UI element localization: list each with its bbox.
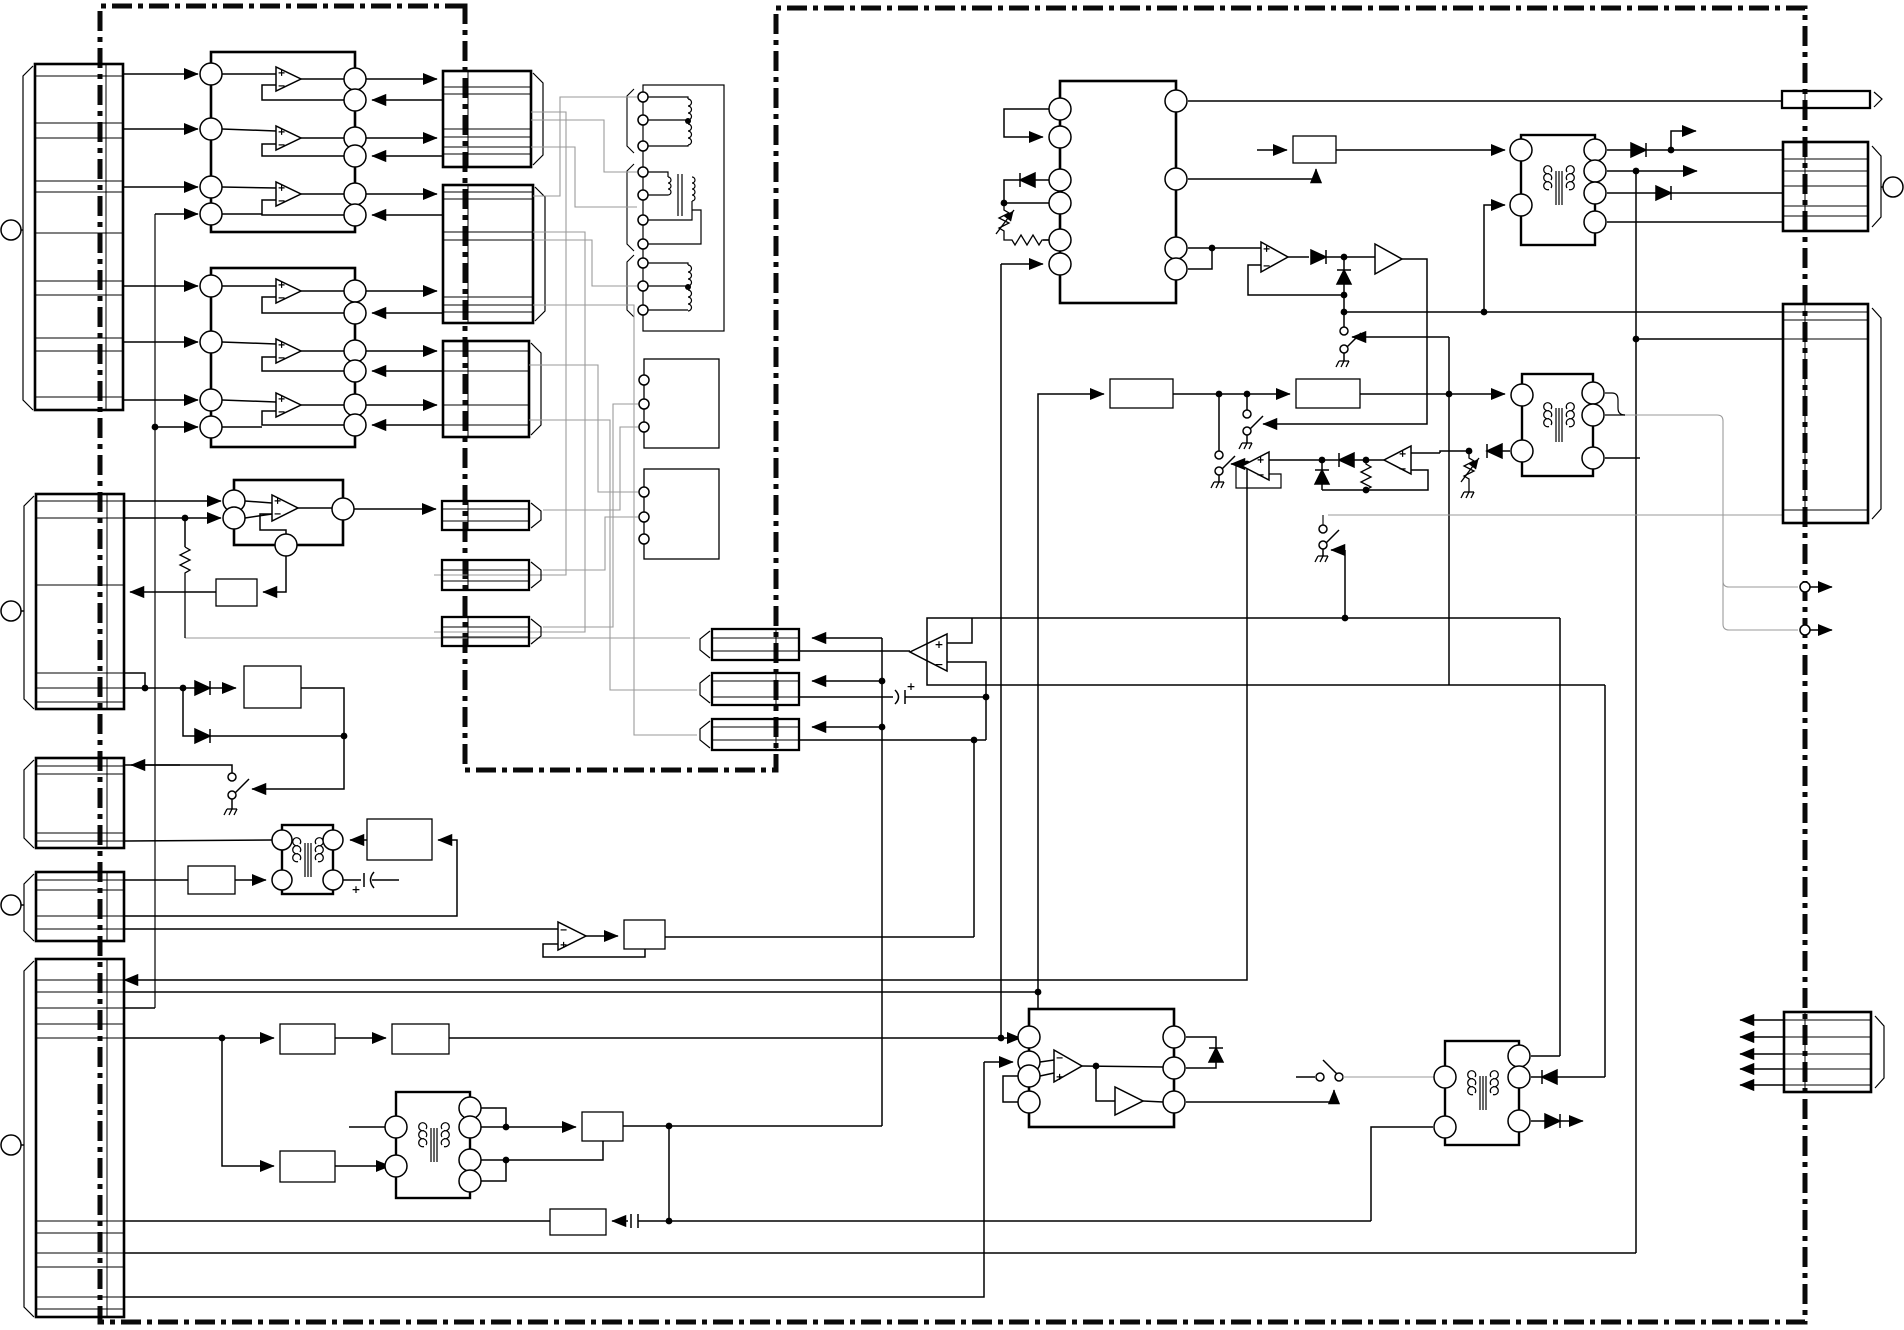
node junction <box>180 685 187 692</box>
connector CN13 <box>700 673 799 705</box>
connector CN10 <box>442 560 541 590</box>
block K13 <box>550 1209 606 1235</box>
wire IC2 outputs <box>366 290 437 292</box>
node junction <box>666 1218 673 1225</box>
connector CN2 (left, second) <box>24 494 124 709</box>
node junction <box>1319 457 1326 464</box>
node junction <box>998 1035 1005 1042</box>
wire K3 to T1 <box>350 839 367 841</box>
switch SW5 <box>1315 515 1348 621</box>
node junction <box>1244 391 1251 398</box>
op-amp U1C <box>222 182 344 215</box>
wire <box>1605 414 1625 416</box>
connector CN18 (bottom right) <box>1784 1012 1884 1092</box>
op-amp U4 <box>910 618 986 740</box>
op-amp U9 <box>1236 452 1322 488</box>
node junction <box>1363 487 1370 494</box>
wire CN1 to IC2 inputs <box>123 285 198 287</box>
node junction <box>503 1157 510 1164</box>
connector CN3 <box>24 758 124 848</box>
wire <box>481 1126 506 1128</box>
node junction <box>1341 254 1348 261</box>
op-amp U1B <box>222 126 344 156</box>
block K5 <box>624 920 665 949</box>
variable resistor VR2 <box>1461 451 1479 498</box>
wire to K12 <box>506 1126 576 1128</box>
transformer T2 <box>1510 135 1606 245</box>
connector CN4 <box>24 872 124 941</box>
wire return <box>372 424 443 426</box>
wire bus to CN17 <box>1636 338 1783 340</box>
wire net B drop <box>1604 685 1606 1077</box>
wire vertical <box>668 1126 670 1221</box>
wire IC1 outputs to CN6 <box>366 78 437 80</box>
connector CN17 (right mid) <box>1783 304 1881 523</box>
diode D13 (vertical) <box>1186 1037 1223 1068</box>
wire CN13 via C2 <box>799 696 893 698</box>
node junction <box>1035 989 1042 996</box>
wire to CN8 <box>366 350 437 352</box>
bracket <box>627 164 634 251</box>
node junction <box>983 694 990 701</box>
connector CN16 (right) <box>1783 142 1881 231</box>
connector CN6 <box>443 71 543 167</box>
wire up to T4 <box>1371 1127 1433 1221</box>
diode D3 <box>1004 173 1049 203</box>
wire CN4 to K4 <box>124 879 188 881</box>
block K2 <box>244 666 301 708</box>
connector CN14 <box>700 719 799 750</box>
node junction <box>1341 309 1348 316</box>
wire vertical to bottom rail <box>124 464 1247 980</box>
diode D1 <box>195 681 236 695</box>
wire vertical <box>1448 337 1450 685</box>
wire to D2 <box>183 688 195 736</box>
resistor R3 (vertical) <box>1361 460 1371 490</box>
wire pin3-4 loop <box>1003 1076 1018 1102</box>
block K8 <box>1296 379 1360 408</box>
transformer T5 <box>385 1092 481 1198</box>
screw terminal E5 <box>1881 177 1903 197</box>
op-amp U11A <box>1040 1050 1163 1101</box>
wire <box>155 426 198 428</box>
op-amp U2C <box>222 393 344 427</box>
block K3 <box>367 819 432 860</box>
coil L1a <box>648 97 692 146</box>
wire <box>124 517 221 519</box>
node junction <box>503 1124 510 1131</box>
capacitor C2 <box>895 683 986 704</box>
wire net A horizontal <box>927 618 1605 685</box>
wire feed K3 <box>124 840 457 916</box>
op-amp U1A <box>222 67 344 100</box>
diode D10 <box>1487 444 1510 458</box>
wire stub <box>349 1126 385 1128</box>
gray routing wires <box>185 97 697 735</box>
wire T4 to net A <box>1531 1055 1560 1057</box>
wire to CN7 <box>366 193 437 195</box>
block K7 <box>1110 379 1173 408</box>
wire drop to K11 <box>222 1038 274 1166</box>
resistor R2 <box>1004 235 1049 245</box>
wire K8 to T3 <box>1360 393 1505 395</box>
variable resistor VR1 <box>996 203 1014 236</box>
wire <box>123 186 198 188</box>
wire branch arrow <box>1671 131 1696 150</box>
node junction <box>182 515 189 522</box>
transformer T6 (middle pair) <box>648 172 701 244</box>
op-amp array IC2 <box>200 268 366 447</box>
node junction <box>341 733 348 740</box>
wire <box>124 687 195 689</box>
wire CN5 to K9 <box>124 1037 274 1039</box>
wire CN1 to IC1 inputs <box>123 73 198 75</box>
op-amp module U3 <box>223 480 354 556</box>
wire T2 feed 2 <box>1484 205 1505 312</box>
diode D15 <box>1531 1114 1583 1128</box>
bracket <box>627 255 634 317</box>
op-amp U2B <box>222 339 344 371</box>
switch SW3 <box>1239 394 1263 449</box>
wire K1 to CN2 <box>130 591 216 593</box>
module M2 <box>639 469 719 559</box>
wire K7 to K8 <box>1173 393 1290 395</box>
node junction <box>1244 461 1251 468</box>
connector CN12 <box>700 629 799 660</box>
wire into CN14 <box>812 726 882 728</box>
coil L1b <box>648 263 692 311</box>
wire <box>1037 992 1039 1009</box>
diode D14 <box>1531 1070 1605 1084</box>
block K9 <box>280 1024 335 1054</box>
wire <box>184 518 186 547</box>
node junction <box>152 424 159 431</box>
node junction <box>1209 245 1216 252</box>
node junction <box>1363 457 1370 464</box>
op-amp U7 <box>1248 242 1344 295</box>
screw terminal E2 <box>1 601 24 621</box>
wire return <box>372 99 443 101</box>
wire return <box>372 312 443 314</box>
node junction <box>1341 292 1348 299</box>
connector CN1 (left top) <box>23 64 123 410</box>
diode D9 <box>1322 453 1384 467</box>
wire OA out to SW4 <box>1231 463 1242 465</box>
pin circles group2 <box>638 167 648 249</box>
block K12 <box>582 1112 623 1141</box>
wire vertical bus x1636 <box>1635 171 1637 1253</box>
border pass-through node <box>1800 582 1832 592</box>
wire CN5 long rail <box>124 991 1038 993</box>
diode D6 <box>1607 143 1783 157</box>
wire <box>506 1141 603 1160</box>
screw terminal E4 <box>1 1135 24 1155</box>
wire T2 pin to bus <box>1607 170 1697 172</box>
wire CN14 return <box>799 739 986 741</box>
node junction <box>971 737 978 744</box>
wire U6 pin6 feed <box>1001 263 1043 265</box>
wire into CN13 <box>812 680 882 682</box>
capacitor C3 <box>612 1214 1371 1228</box>
wire U11 out to SW6 <box>1186 1101 1334 1103</box>
wire K11 to T5 <box>335 1165 390 1167</box>
wire vertical <box>124 1062 984 1297</box>
wire CN12 to U4 <box>799 650 910 652</box>
connector CN11 <box>442 617 541 646</box>
capacitor C1 <box>343 872 399 893</box>
node junction <box>1633 336 1640 343</box>
block K6 <box>1293 136 1336 163</box>
wire CN2 to U3 <box>124 500 221 502</box>
node junction <box>1668 147 1675 154</box>
diode D2 <box>195 729 344 743</box>
wire U6 pin to U7 <box>1188 247 1261 249</box>
wire U6 to K6 <box>1188 169 1316 179</box>
block K11 <box>280 1151 335 1182</box>
wire bias vertical bus <box>154 214 156 1008</box>
IC U11 <box>1018 1009 1185 1127</box>
switch SW6 <box>1296 1060 1343 1102</box>
wire <box>366 137 437 139</box>
wire bottom rail of cluster <box>1322 470 1428 490</box>
transformer T1 <box>272 825 343 894</box>
node junction <box>1216 391 1223 398</box>
wire T3 stub <box>1605 457 1640 459</box>
screw terminal E3 <box>1 895 24 915</box>
diode D8 (vertical) <box>1315 460 1329 490</box>
buffer U11B <box>1115 1087 1163 1115</box>
wire T5 secondary join <box>481 1108 506 1127</box>
op-amp U2A <box>222 279 344 313</box>
wire CN5 to bias bus <box>124 1007 155 1009</box>
gray wire SW6 to T4 <box>1343 1076 1434 1078</box>
block K10 <box>392 1024 449 1054</box>
connector CN7 <box>443 185 545 323</box>
connector CN5 (left bottom) <box>24 959 124 1317</box>
wire <box>123 399 198 401</box>
buffer U8 <box>1263 244 1427 424</box>
wire CN2 rung to diodes <box>124 673 145 688</box>
wire T3 jog <box>1605 393 1625 415</box>
wire K4 to T1 <box>235 879 266 881</box>
wire vertical bus <box>881 638 883 1126</box>
wire CN5 rail <box>124 1252 1636 1254</box>
diode D5 (vertical) <box>1337 257 1351 312</box>
block K4 <box>188 866 235 894</box>
wire U6 out to CN15 <box>1188 100 1782 102</box>
wire CN18 outputs <box>1740 1020 1784 1085</box>
wire <box>481 1160 506 1181</box>
module M1 <box>639 359 719 448</box>
wire K6 to T2 <box>1336 149 1505 151</box>
wire stub into K6 <box>1257 149 1287 151</box>
switch SW4 <box>1211 394 1235 488</box>
gray wire to border outputs <box>1328 415 1798 630</box>
resistor R1 <box>180 547 190 638</box>
screw terminal E1 <box>1 220 23 240</box>
wire return <box>372 370 443 372</box>
node junction <box>1001 200 1008 207</box>
node junction <box>879 724 886 731</box>
pin circles group1 <box>638 92 648 151</box>
node junction <box>666 1123 673 1130</box>
transformer T4 <box>1434 1041 1530 1145</box>
wire return <box>372 155 443 157</box>
wire K10 to U11 <box>449 1037 1021 1039</box>
wire pin2 feed <box>984 1061 1013 1063</box>
switch SW1 <box>124 765 249 815</box>
connector CN8 <box>443 341 541 437</box>
wire K2 out <box>252 688 344 789</box>
wire U3 ref to K1 <box>263 556 286 592</box>
wire T5 lower join <box>481 1159 506 1161</box>
diode D4 <box>1311 250 1375 264</box>
wire vertical <box>973 740 975 937</box>
wire <box>1607 221 1783 223</box>
wire <box>366 404 437 406</box>
IC U6 (top mid) <box>1049 81 1187 303</box>
node junction <box>879 678 886 685</box>
wire K9 to K10 <box>335 1037 386 1039</box>
wire <box>155 213 198 215</box>
diode D7 <box>1607 186 1783 200</box>
transformer block T5 outer <box>643 85 724 331</box>
wire pair loop <box>1188 248 1212 269</box>
node junction <box>1446 391 1453 398</box>
node junction <box>219 1035 226 1042</box>
connector CN9 <box>442 501 541 530</box>
block K1 <box>216 579 257 606</box>
wire U3 out to CN9 <box>354 508 436 510</box>
wire return <box>372 214 443 216</box>
op-amp array IC1 <box>200 52 366 232</box>
wire <box>123 341 198 343</box>
wire net A drop to T4 <box>1559 618 1561 1056</box>
wire into CN12 <box>812 637 882 639</box>
transformer T3 <box>1511 374 1604 476</box>
wire K12 out <box>623 1125 882 1127</box>
wire <box>1004 202 1049 204</box>
wire B+ rail <box>1344 311 1783 313</box>
wire feed K7 <box>1038 394 1104 992</box>
wire <box>123 128 198 130</box>
op-amp U5 <box>124 922 645 957</box>
wire vertical <box>1000 264 1002 1038</box>
switch SW2 <box>1336 312 1449 367</box>
wire CN5 to K13 <box>124 1220 550 1222</box>
node junction <box>1466 448 1473 455</box>
node junction <box>1481 309 1488 316</box>
op-amp U10 <box>1384 446 1470 474</box>
node junction <box>142 685 149 692</box>
pin circles group3 <box>638 258 648 315</box>
bracket <box>627 89 634 153</box>
wire CN3 to T1 <box>124 840 272 841</box>
wire U6 pin loop <box>1004 109 1049 137</box>
node junction <box>1633 168 1640 175</box>
connector CN15 (thin top right) <box>1782 91 1882 108</box>
wire <box>1043 239 1049 241</box>
border pass-through node <box>1800 625 1832 635</box>
wire K5 out <box>665 936 974 938</box>
